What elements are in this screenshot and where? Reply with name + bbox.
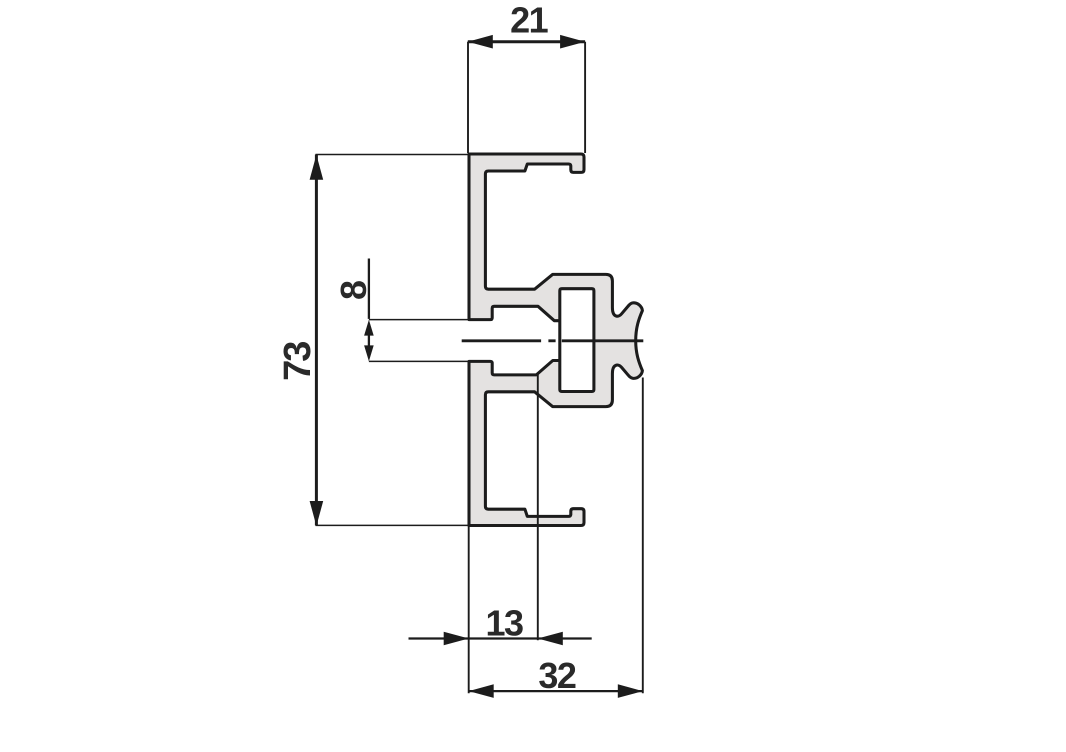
svg-text:13: 13 <box>485 603 523 644</box>
svg-text:32: 32 <box>538 655 576 696</box>
svg-text:8: 8 <box>333 280 374 300</box>
svg-text:21: 21 <box>510 0 549 40</box>
svg-text:73: 73 <box>277 342 319 381</box>
